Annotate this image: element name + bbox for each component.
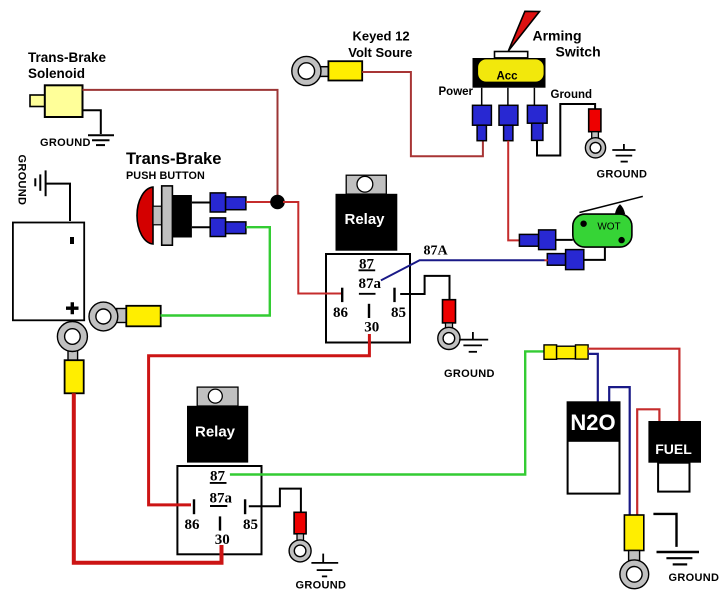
ring terminal RT1 (keyed 12V source) (317, 67, 329, 77)
svg-text:Trans-Brake: Trans-Brake (126, 150, 221, 168)
relay U1 body (336, 194, 398, 251)
svg-text:N2O: N2O (570, 410, 615, 435)
wire W19 navy: N2O solenoid to ground connector (609, 387, 630, 514)
relay U1 base (326, 254, 410, 343)
svg-text:Acc: Acc (496, 70, 518, 82)
svg-text:Keyed 12: Keyed 12 (352, 29, 409, 44)
wire W12 black: relay1 pin 85 to ground ring (400, 276, 449, 300)
relay U2 base (177, 466, 261, 554)
wire W11 black: WOT lower connector to WOT switch bottom (584, 248, 605, 260)
svg-text:Relay: Relay (195, 424, 236, 441)
relay1 pin 30 bar (368, 304, 370, 318)
svg-text:WOT: WOT (597, 222, 620, 233)
toggle switch black body (473, 58, 546, 88)
svg-text:86: 86 (185, 517, 201, 533)
svg-text:87A: 87A (424, 244, 449, 259)
wire W10 black: WOT upper connector to WOT switch (556, 239, 573, 241)
wire W17 red: inline connector to FUEL solenoid (588, 349, 679, 421)
toggle switch yellow face (478, 59, 543, 81)
svg-text:30: 30 (364, 320, 379, 336)
ring terminal RT2 (battery positive, horizontal) (117, 309, 128, 323)
svg-text:GROUND: GROUND (16, 155, 28, 206)
wire W5 green: push button to battery+ (161, 227, 270, 315)
svg-text:85: 85 (243, 517, 258, 533)
push button gray step (153, 206, 162, 225)
wire W18 navy: inline connector to N2O solenoid (588, 354, 598, 403)
svg-text:Ground: Ground (551, 89, 593, 101)
svg-text:GROUND: GROUND (597, 169, 648, 181)
connector J3 blue (arming power) (473, 105, 492, 125)
ring terminal RT6 (relay2 ground) (294, 512, 306, 534)
switch WOT screw holes (580, 221, 586, 227)
solenoid N2O (568, 402, 620, 493)
solenoid FUEL (658, 463, 689, 492)
relay2 pin 86 bar (193, 499, 195, 514)
ground G3 (relay1 ground) (472, 332, 474, 339)
wire solenoid to ground (83, 110, 101, 134)
svg-text:PUSH BUTTON: PUSH BUTTON (126, 170, 205, 182)
svg-text:86: 86 (333, 305, 349, 321)
wire W6 red: keyed source to arming switch power connector (362, 72, 483, 156)
wire W16 green: relay2 pin 87 to inline connector (230, 351, 545, 474)
svg-text:FUEL: FUEL (655, 441, 692, 457)
battery plus mark (66, 302, 79, 314)
svg-text:Power: Power (439, 86, 474, 98)
ring terminal RT4 (relay1 ground) (443, 300, 456, 323)
svg-text:87a: 87a (359, 276, 382, 292)
ground G5 (relay2 ground) (322, 554, 324, 563)
wire W8 black: arming ground connector to ground ring (537, 104, 595, 156)
wire W7 red: arming output to WOT connector (508, 141, 519, 241)
wire red stub at WOT lower connector (545, 259, 548, 261)
wire W20 red: FUEL solenoid to ground connector (637, 409, 659, 514)
wire push button terminal stubs (192, 203, 210, 228)
ground G2 (battery negative ground, sideways) (34, 178, 36, 186)
svg-text:85: 85 (391, 305, 406, 321)
connector J5 blue (arming ground) (527, 105, 547, 123)
relay2 pin 85 bar (244, 499, 246, 514)
wire arming switch terminal stubs (482, 88, 535, 106)
svg-text:30: 30 (215, 532, 230, 548)
svg-text:Arming: Arming (533, 28, 582, 44)
push button gray flange (162, 186, 173, 245)
connector J4 blue (arming output) (499, 105, 518, 125)
ground G6 (bottom right) (653, 514, 676, 547)
wire W3 red: push button to junction node (246, 201, 272, 203)
svg-text:Solenoid: Solenoid (28, 66, 85, 81)
ground G4 (arming switch ground) (623, 144, 625, 150)
wire W15 black: relay2 pin 85 to ground ring (249, 489, 301, 513)
svg-text:Trans-Brake: Trans-Brake (28, 50, 107, 65)
ring terminal RT3 (battery positive, vertical) (68, 349, 78, 361)
solenoid SOL1 (trans-brake solenoid) (30, 95, 45, 107)
svg-text:Volt Soure: Volt Soure (348, 45, 412, 60)
battery BT1 (13, 223, 84, 321)
svg-text:Relay: Relay (344, 211, 385, 228)
ground G1 (solenoid ground) (88, 134, 114, 136)
connector J2 blue (push button bottom) (210, 218, 225, 237)
svg-text:GROUND: GROUND (296, 580, 347, 592)
relay1 pin 85 bar (393, 288, 395, 302)
push button SW1 red dome (137, 187, 153, 244)
svg-text:87a: 87a (210, 491, 233, 507)
relay U2 body (187, 406, 248, 463)
wire W13 red: relay1 pin 30 to relay2 pin 86 (149, 334, 370, 505)
wire W14 thick red: battery+ to relay2 pin 30 (74, 393, 222, 563)
toggle switch SW2 red lever (508, 11, 539, 51)
switch WOT button triangle (615, 204, 625, 214)
toggle switch bushing (495, 52, 528, 58)
relay U1 mounting tab (346, 175, 386, 194)
connector J1 blue (push button top) (210, 193, 225, 212)
battery minus mark (70, 237, 74, 244)
switch WOT body (573, 214, 632, 247)
relay1 pin 86 bar (341, 288, 343, 302)
wire W4 red: junction node to relay1 pin 86 (283, 202, 341, 294)
ring terminal RT7 (N2O/FUEL ground) (624, 515, 643, 551)
wire battery minus to ground G2 (46, 184, 70, 221)
svg-text:GROUND: GROUND (669, 572, 720, 584)
node junction dot (270, 195, 285, 210)
ring terminal RT5 (arming switch ground) (589, 109, 601, 132)
push button black body (172, 195, 192, 238)
connector J8 yellow inline splice (544, 345, 557, 359)
svg-text:GROUND: GROUND (40, 137, 91, 149)
svg-text:Switch: Switch (556, 44, 601, 60)
connector J7 blue (WOT lower) (547, 254, 565, 266)
relay U2 mounting tab (197, 387, 238, 406)
wire W9 navy 87A: relay1 87a to WOT lower connector (381, 260, 545, 280)
relay2 pin 30 bar (219, 516, 221, 530)
switch WOT lever arm (579, 196, 642, 212)
svg-text:GROUND: GROUND (444, 368, 495, 380)
connector J6 blue (WOT upper) (519, 234, 538, 246)
wire W1 dark red: solenoid to junction node (83, 90, 278, 198)
